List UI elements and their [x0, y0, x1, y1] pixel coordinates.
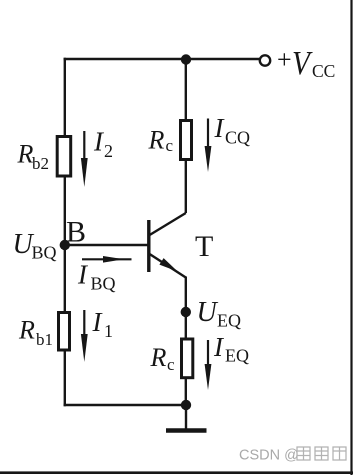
svg-text:c: c: [167, 355, 175, 374]
svg-text:U: U: [197, 297, 219, 328]
terminal open circle VCC: [260, 55, 270, 65]
watermark CJK glyph 1: [297, 447, 310, 460]
node B dot: [60, 240, 70, 250]
svg-text:b2: b2: [32, 154, 49, 173]
svg-text:c: c: [166, 136, 174, 155]
svg-text:2: 2: [104, 141, 113, 161]
resistor Rb1: [59, 313, 70, 351]
current arrow I2: [83, 131, 85, 162]
node UEQ dot: [181, 307, 191, 317]
current arrow IBQ: [82, 258, 132, 260]
svg-text:b1: b1: [36, 330, 53, 349]
svg-text:BQ: BQ: [91, 274, 116, 294]
svg-text:1: 1: [104, 321, 113, 341]
wire right collector vertical: [185, 59, 187, 213]
svg-text:CQ: CQ: [225, 128, 250, 148]
svg-text:EQ: EQ: [225, 346, 249, 366]
resistor Rb2: [57, 137, 70, 177]
wire emitter diagonal out of transistor: [149, 254, 186, 278]
page bottom border: [0, 471, 353, 474]
wire bottom rail: [64, 404, 186, 406]
wire collector diagonal into transistor: [149, 213, 186, 236]
svg-text:T: T: [195, 230, 213, 263]
watermark CJK glyph 3: [333, 447, 346, 460]
svg-text:B: B: [66, 216, 86, 249]
ground stub wire: [185, 405, 187, 429]
page right border: [350, 0, 352, 475]
svg-text:EQ: EQ: [217, 311, 241, 331]
svg-text:+: +: [277, 45, 292, 74]
transistor emitter arrowhead: [159, 258, 177, 272]
current arrow I1: [83, 310, 85, 338]
svg-text:BQ: BQ: [32, 243, 57, 263]
svg-text:R: R: [17, 140, 34, 169]
watermark CJK glyph 2: [315, 447, 328, 460]
current arrow ICQ: [207, 119, 209, 151]
svg-text:CSDN @: CSDN @: [239, 448, 299, 464]
current arrow IEQ: [207, 340, 209, 368]
transistor Q1 base bar: [147, 220, 150, 272]
wire emitter vertical down to ground rail: [185, 277, 187, 407]
svg-text:R: R: [18, 316, 35, 345]
resistor Re (labelled Rc): [182, 339, 193, 378]
wire left vertical branch: [64, 58, 66, 406]
junction dot bottom rail: [181, 400, 191, 410]
wire base connection B to transistor: [65, 244, 149, 246]
svg-text:R: R: [150, 343, 167, 372]
junction dot top rail: [181, 54, 191, 64]
wire top rail: [64, 58, 260, 60]
resistor Rc (collector): [181, 121, 192, 160]
svg-text:R: R: [148, 126, 165, 155]
svg-text:CC: CC: [312, 61, 335, 81]
ground bar: [166, 428, 207, 433]
